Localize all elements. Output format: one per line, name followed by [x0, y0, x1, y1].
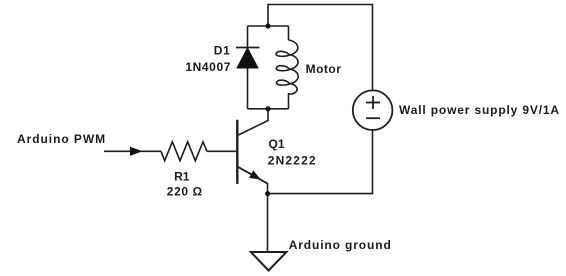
node C (emitter junction)	[265, 191, 270, 196]
svg-text:220 Ω: 220 Ω	[167, 185, 203, 199]
wire emitter node to supply bottom	[268, 131, 373, 194]
wire resistor to base	[207, 150, 237, 152]
svg-text:Motor: Motor	[306, 62, 342, 76]
wire diode bottom stub	[247, 68, 249, 109]
wire emitter to node	[237, 167, 267, 194]
svg-text:D1: D1	[214, 43, 231, 57]
wire motor bottom stub	[288, 93, 290, 109]
wire top rail of diode/motor pair	[248, 25, 289, 27]
svg-text:R1: R1	[174, 169, 190, 183]
voltage source V1	[353, 90, 393, 130]
svg-text:2N2222: 2N2222	[268, 153, 317, 167]
svg-text:Arduino ground: Arduino ground	[289, 238, 392, 252]
wire collector to bottom rail	[237, 109, 268, 136]
ground	[251, 252, 287, 271]
svg-text:Q1: Q1	[269, 137, 285, 151]
svg-text:1N4007: 1N4007	[185, 60, 231, 74]
transistor Q1	[237, 120, 267, 184]
wire diode top stub	[247, 26, 249, 48]
diode D1	[236, 48, 260, 69]
wire emitter node to ground	[267, 194, 269, 252]
arrowhead input	[130, 147, 143, 156]
wire bottom rail of diode/motor pair	[248, 108, 289, 110]
node A (top junction)	[265, 23, 270, 28]
resistor R1	[161, 142, 207, 161]
node B (collector junction)	[265, 106, 270, 111]
wire top rail to supply	[268, 5, 373, 91]
inductor Motor	[276, 40, 298, 94]
wire motor top stub	[288, 26, 290, 40]
wire input from Arduino PWM	[104, 150, 161, 152]
svg-text:Wall power supply 9V/1A: Wall power supply 9V/1A	[399, 103, 560, 117]
svg-text:Arduino PWM: Arduino PWM	[17, 132, 106, 146]
